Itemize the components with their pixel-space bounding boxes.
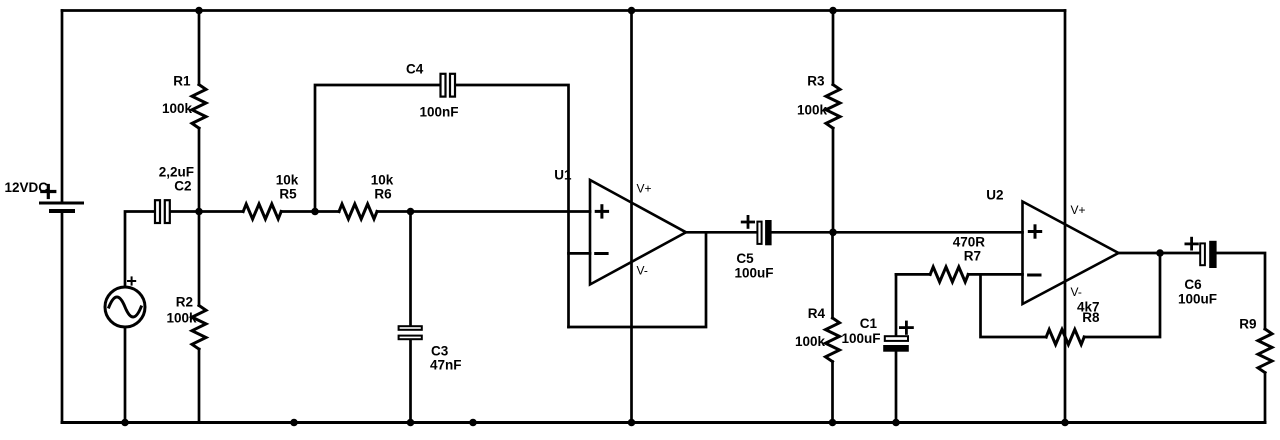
wire C2 to node <box>171 210 243 213</box>
wire U1 output <box>686 231 756 234</box>
wire R2 bottom <box>198 349 201 422</box>
wire battery left vertical top <box>61 11 64 204</box>
wire U2 output <box>1119 252 1200 255</box>
junction dot U2 output node <box>1156 249 1164 257</box>
resistor R8 <box>1046 330 1084 345</box>
junction dot U2 V- / bottom rail <box>1061 419 1069 427</box>
op-amp U2 minus input symbol <box>1029 274 1040 277</box>
svg-text:100k: 100k <box>795 334 826 349</box>
junction dot R4 / bottom rail <box>829 419 837 427</box>
junction dot AC-source / bottom rail <box>121 419 129 427</box>
wire R7 left <box>896 273 930 276</box>
svg-text:V+: V+ <box>1071 203 1086 217</box>
wire C3 top <box>409 212 412 326</box>
resistor R7 <box>930 267 968 282</box>
svg-text:100uF: 100uF <box>1178 292 1217 307</box>
AC source V1 <box>105 287 145 327</box>
wire R1 top <box>198 11 201 85</box>
op-amp U1 plus input symbol <box>596 206 607 217</box>
svg-text:C6: C6 <box>1184 277 1202 292</box>
wire U1 inverting input stub <box>569 252 591 255</box>
wire U2 power vertical <box>1064 11 1067 423</box>
svg-text:C2: C2 <box>174 179 191 194</box>
resistor R4 <box>826 318 840 362</box>
svg-text:100uF: 100uF <box>841 331 880 346</box>
junction dot R1 / top rail <box>195 7 203 15</box>
op-amp U1 minus input symbol <box>596 252 607 255</box>
wire bottom rail <box>62 421 1265 424</box>
wire R9 bottom <box>1264 373 1267 423</box>
svg-text:R1: R1 <box>173 74 191 89</box>
capacitor C2 <box>155 200 170 223</box>
wire AC source bottom <box>124 327 127 423</box>
svg-text:U2: U2 <box>986 188 1003 203</box>
junction dot R5/R6/C4 feedback <box>311 208 319 216</box>
resistor R3 <box>826 85 840 129</box>
wire C6 to R9 <box>1217 253 1265 329</box>
svg-text:R9: R9 <box>1239 317 1256 332</box>
capacitor C3 <box>399 326 422 339</box>
resistor R1 <box>192 85 206 129</box>
svg-text:100uF: 100uF <box>734 266 773 281</box>
wire C4 right to U1 inverting node <box>456 85 569 327</box>
wire R7 right to U2 minus input <box>968 273 1022 276</box>
resistor R2 <box>192 306 206 350</box>
junction dot stray bottom rail 2 <box>469 419 477 427</box>
wire R5 to node <box>281 210 339 213</box>
junction dot R3/R4 node <box>829 229 837 237</box>
capacitor C6 <box>1200 241 1216 268</box>
svg-text:U1: U1 <box>554 168 572 183</box>
svg-text:R2: R2 <box>176 295 193 310</box>
wire feedback up from R5/R6 node <box>315 85 440 212</box>
svg-text:100k: 100k <box>797 103 828 118</box>
svg-text:V-: V- <box>1071 285 1082 299</box>
svg-text:10k: 10k <box>371 173 394 188</box>
svg-text:47nF: 47nF <box>430 358 462 373</box>
battery plus sign <box>42 186 55 198</box>
svg-text:470R: 470R <box>953 235 986 250</box>
wire R3 bottom <box>832 128 835 232</box>
junction dot C3 / bottom rail <box>407 419 415 427</box>
junction dot node C2/R1/R2 <box>195 208 203 216</box>
svg-text:C1: C1 <box>860 316 878 331</box>
capacitor C5 plus sign <box>742 216 753 227</box>
wire U1 power vertical <box>630 11 633 423</box>
junction dot stray bottom rail 1 <box>290 419 298 427</box>
capacitor C1 plus sign <box>900 322 912 333</box>
wire C1 bottom <box>895 352 898 422</box>
svg-text:R5: R5 <box>279 187 297 202</box>
battery V2 12VDC <box>41 203 83 211</box>
resistor R9 <box>1258 329 1272 373</box>
wire R1 bottom <box>198 128 201 211</box>
wire R8 right to U2 output <box>1084 253 1160 337</box>
wire R4 top <box>831 232 834 318</box>
junction dot U1 V- / bottom rail <box>628 419 636 427</box>
wire feedback down from R7 line <box>981 274 1047 337</box>
svg-text:V+: V+ <box>637 182 652 196</box>
wire R4 bottom <box>831 362 834 423</box>
wire battery left vertical bottom <box>61 211 64 423</box>
junction dot C1 / bottom rail <box>892 419 900 427</box>
wire R2 top <box>198 212 201 306</box>
svg-text:2,2uF: 2,2uF <box>159 165 194 180</box>
junction dot R3 / top rail <box>829 7 837 15</box>
wire top rail <box>62 9 1065 12</box>
junction dot U1 V+ / top rail <box>628 7 636 15</box>
svg-text:R6: R6 <box>374 187 392 202</box>
wire R6 to U1 plus input <box>377 210 590 213</box>
svg-text:100nF: 100nF <box>420 105 459 120</box>
wire AC source top <box>125 212 154 288</box>
junction dot R6/C3 node <box>407 208 415 216</box>
svg-text:R3: R3 <box>807 74 825 89</box>
wire C1 top from R7 corner <box>895 274 898 334</box>
op-amp U2 <box>1023 202 1119 305</box>
capacitor C4 <box>441 74 456 97</box>
capacitor C5 <box>757 220 771 245</box>
svg-text:R4: R4 <box>808 306 826 321</box>
op-amp U2 plus input symbol <box>1029 226 1040 237</box>
resistor R6 <box>339 204 377 219</box>
resistor R5 <box>243 204 281 219</box>
wire C5 to U2 plus input <box>773 231 1023 234</box>
capacitor C6 plus sign <box>1186 238 1198 249</box>
svg-text:R7: R7 <box>964 249 981 264</box>
AC source plus sign <box>128 277 135 284</box>
svg-text:100k: 100k <box>162 101 193 116</box>
svg-text:R8: R8 <box>1082 310 1100 325</box>
capacitor C1 <box>883 336 909 352</box>
svg-text:C4: C4 <box>406 62 424 77</box>
op-amp U1 <box>590 180 686 285</box>
wire C3 bottom <box>409 341 412 423</box>
svg-text:12VDC: 12VDC <box>4 180 48 195</box>
svg-text:10k: 10k <box>276 173 299 188</box>
wire U1 feedback bottom <box>569 232 707 327</box>
svg-text:C3: C3 <box>431 344 449 359</box>
svg-text:C5: C5 <box>736 251 754 266</box>
wire R3 top <box>832 11 835 85</box>
svg-text:100k: 100k <box>166 311 197 326</box>
svg-text:V-: V- <box>637 264 648 278</box>
